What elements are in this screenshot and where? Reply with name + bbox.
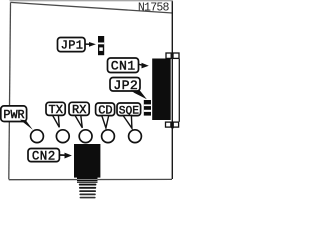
arrow CN2 <box>60 153 72 159</box>
LED SQE <box>129 130 142 143</box>
pointer RX <box>75 115 82 127</box>
svg-text:N1758: N1758 <box>138 2 170 15</box>
svg-text:CN2: CN2 <box>32 150 56 164</box>
label JP2 <box>110 78 140 93</box>
pointer SQE <box>123 116 132 129</box>
label CN2 <box>28 149 59 164</box>
label RX <box>69 102 89 117</box>
label CN1 <box>108 58 139 74</box>
label SQE <box>117 103 141 117</box>
label JP1 <box>58 38 86 53</box>
bracket edge line <box>171 1 173 179</box>
pointer CD <box>102 116 109 128</box>
screw tab top <box>166 53 179 58</box>
LED TX <box>56 130 69 143</box>
LED PWR <box>31 130 44 143</box>
screw tab bottom <box>166 122 179 129</box>
arrow JP2 <box>131 90 147 99</box>
LED RX <box>79 130 92 143</box>
connector CN2 (BNC) body <box>74 144 100 183</box>
label TX <box>46 102 65 117</box>
svg-text:JP1: JP1 <box>61 39 84 53</box>
label CD <box>96 103 115 117</box>
BNC threads <box>79 184 97 199</box>
jumper JP2 <box>144 100 151 116</box>
connector CN1 (AUI) body <box>152 59 171 121</box>
bracket flange line <box>178 59 180 122</box>
board outline <box>9 2 173 179</box>
arrow PWR <box>20 120 33 130</box>
svg-text:CN1: CN1 <box>111 59 136 74</box>
LED CD <box>102 130 115 143</box>
pointer TX <box>53 115 60 127</box>
label PWR <box>1 106 27 122</box>
jumper JP1 <box>98 36 104 55</box>
figure frame top line <box>10 0 174 2</box>
arrow CN1 <box>139 63 149 69</box>
arrow JP1 <box>86 42 96 47</box>
